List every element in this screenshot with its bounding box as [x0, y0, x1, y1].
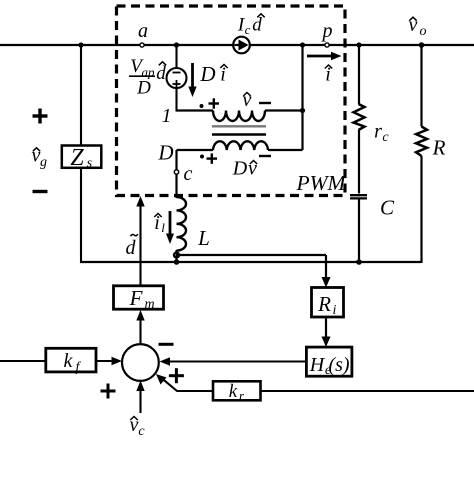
svg-text:c: c: [138, 424, 145, 439]
secondary polarity dot: [200, 155, 204, 159]
wire left source branch upper: [80, 45, 82, 146]
wire vsource upper stub: [175, 45, 177, 68]
transformer core line gray: [212, 125, 266, 127]
junction primary right: [300, 108, 305, 113]
svg-text:D: D: [232, 158, 248, 180]
inductor L winding: [177, 197, 187, 251]
svg-text:d: d: [252, 15, 262, 36]
svg-text:k: k: [64, 350, 74, 372]
transformer secondary winding: [213, 141, 268, 150]
svg-text:PWM: PWM: [296, 171, 347, 195]
wire left source branch lower: [80, 167, 82, 263]
wire kr output: [162, 379, 213, 392]
label plus right summing: [169, 368, 184, 383]
svg-text:m: m: [144, 297, 154, 312]
wire kf input: [0, 360, 46, 362]
svg-text:l: l: [161, 220, 165, 235]
svg-text:d: d: [156, 63, 166, 84]
kr box: [213, 381, 261, 400]
resistor R: [416, 45, 427, 263]
label minus summing: [159, 343, 174, 346]
junction rc top: [356, 42, 361, 47]
node c marker: [174, 170, 178, 174]
wire primary left lead: [176, 109, 214, 111]
svg-text:i: i: [333, 303, 337, 318]
label plus vg: [33, 109, 48, 124]
svg-text:k: k: [229, 381, 238, 402]
junction top-left node: [78, 42, 83, 47]
svg-text:s: s: [87, 156, 93, 171]
svg-text:F: F: [129, 286, 143, 310]
arrow summing to Fm: [136, 310, 144, 343]
wire c branch: [175, 150, 177, 198]
arrow D i downward: [188, 63, 196, 97]
node p marker: [325, 43, 329, 47]
secondary minus: [259, 155, 271, 157]
Ri box: [312, 288, 344, 318]
primary polarity dot: [200, 104, 204, 108]
wire secondary right lead: [268, 149, 303, 151]
secondary plus: [207, 153, 218, 163]
current source Ic d: [233, 37, 250, 54]
junction vsource tap: [174, 42, 179, 47]
svg-text:R: R: [432, 136, 446, 160]
resistor rc: [354, 45, 365, 194]
svg-text:R: R: [317, 292, 331, 316]
label plus left summing: [101, 384, 116, 399]
kf box: [46, 348, 96, 372]
svg-text:D: D: [157, 141, 173, 165]
wire top bus right of current source: [250, 44, 474, 46]
svg-text:a: a: [138, 20, 148, 42]
wire Ri feed horizontal: [177, 254, 327, 256]
summing junction: [122, 344, 159, 381]
svg-text:p: p: [321, 20, 333, 42]
svg-text:c: c: [382, 130, 389, 145]
node inductor bottom marker: [174, 252, 179, 257]
transformer primary winding: [213, 111, 265, 122]
wire secondary left lead: [177, 149, 214, 151]
svg-text:d: d: [126, 237, 137, 259]
junction inductor bottom bus: [174, 259, 180, 265]
wire top bus left of current source: [0, 44, 233, 46]
wire primary right lead: [265, 109, 303, 111]
svg-text:H: H: [309, 354, 326, 376]
junction vo node: [419, 42, 425, 48]
arrow kf to summing: [96, 357, 122, 365]
svg-text:Z: Z: [70, 145, 84, 171]
svg-text:c: c: [184, 163, 193, 185]
wire below capacitor: [358, 199, 360, 262]
arrowhead kr to summing: [156, 374, 167, 385]
wire kr input: [261, 390, 474, 392]
arrow d into PWM box: [136, 196, 144, 286]
svg-text:g: g: [40, 155, 47, 170]
Fm box: [114, 286, 164, 309]
arrow vc into summing: [136, 381, 144, 414]
svg-text:L: L: [197, 226, 210, 250]
arrow i current at p: [307, 52, 342, 60]
wire bottom bus: [80, 261, 422, 263]
svg-text:C: C: [380, 196, 395, 220]
svg-text:c: c: [245, 22, 251, 37]
arrow He to summing: [160, 357, 307, 365]
wire transformer right vertical: [301, 45, 303, 150]
capacitor C: [350, 195, 367, 198]
label minus vg: [33, 190, 48, 193]
svg-text:(s): (s): [328, 354, 349, 376]
wire vsource lower stub: [175, 88, 177, 111]
svg-text:r: r: [374, 121, 382, 143]
primary minus: [259, 102, 271, 104]
PWM dashed box: [117, 6, 346, 196]
arrow il: [166, 211, 174, 244]
wire Ri feed vertical with arrow: [322, 255, 331, 288]
junction C bottom: [356, 259, 362, 265]
junction transformer top: [300, 42, 305, 47]
svg-text:1: 1: [162, 105, 172, 127]
primary plus: [209, 98, 220, 108]
transformer core line black: [212, 133, 266, 135]
node a marker: [140, 43, 144, 47]
voltage source Vap/D d: [167, 68, 187, 88]
arrow Ri to He: [322, 317, 331, 347]
svg-text:o: o: [420, 24, 427, 39]
Zs box: [62, 146, 102, 168]
He box: [306, 347, 352, 376]
wire inductor to bottom bus: [175, 250, 177, 263]
svg-text:D: D: [136, 78, 151, 99]
svg-text:D: D: [199, 62, 215, 86]
